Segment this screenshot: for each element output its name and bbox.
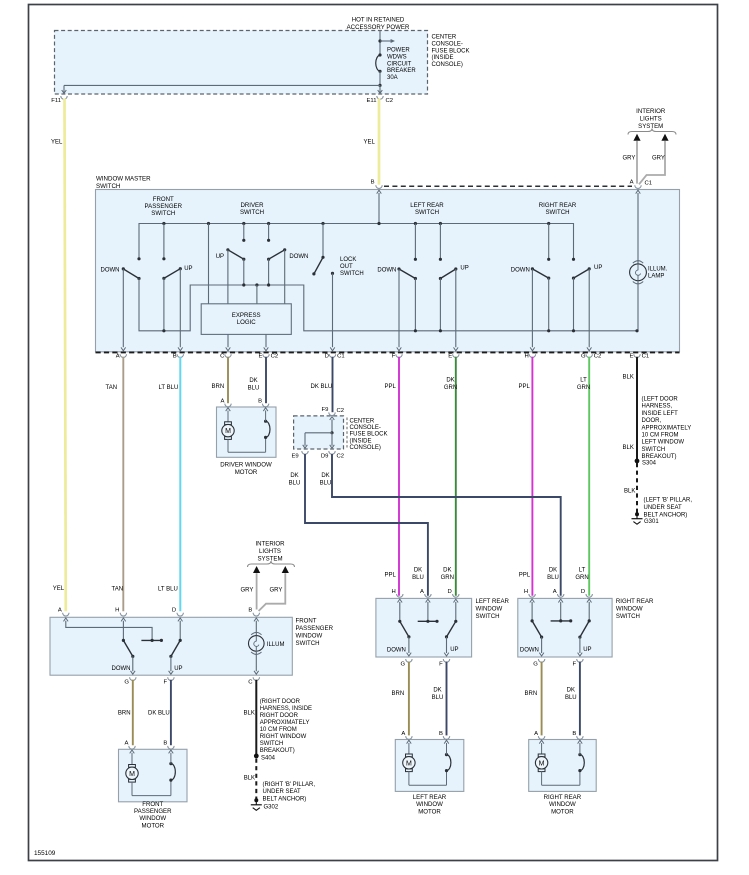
illumination lamp in master switch (637, 193, 639, 264)
svg-text:SWITCH: SWITCH (545, 209, 569, 216)
svg-text:10 CM FROM: 10 CM FROM (642, 433, 679, 439)
pin F11 exit (63, 85, 65, 93)
wire BLK splice to ground G302 (255, 759, 257, 799)
svg-text:LT BLU: LT BLU (159, 385, 179, 391)
pin B top connector (376, 185, 382, 188)
driver motor pin B (262, 404, 268, 407)
svg-text:B: B (173, 354, 177, 360)
svg-text:ILLUM: ILLUM (267, 642, 285, 648)
svg-text:GRN: GRN (575, 575, 588, 581)
svg-text:CONSOLE-: CONSOLE- (350, 425, 381, 431)
master pin G C2 (586, 354, 592, 357)
master pin F (396, 354, 402, 357)
svg-text:BRN: BRN (392, 691, 405, 697)
lockout contact from bus (321, 222, 324, 225)
svg-text:FUSE BLOCK: FUSE BLOCK (432, 48, 470, 54)
lr motor pin A (406, 736, 412, 739)
label CENTER CONSOLE- FUSE BLOCK (INSIDE CONSOLE) (346, 418, 348, 448)
wire DK BLU fp switch F to fp motor B (170, 680, 172, 745)
svg-text:DK: DK (290, 473, 298, 479)
right rear window switch box (518, 598, 612, 657)
svg-text:TAN: TAN (112, 587, 124, 593)
fp contact bar (141, 639, 161, 641)
svg-text:SWITCH: SWITCH (340, 271, 364, 277)
svg-text:D: D (325, 354, 329, 360)
rr switch pin F (577, 659, 583, 662)
svg-text:RIGHT REAR: RIGHT REAR (616, 598, 654, 605)
svg-text:DK: DK (249, 378, 257, 384)
svg-text:APPROXIMATELY: APPROXIMATELY (642, 425, 692, 431)
rr switch pin D (586, 594, 592, 597)
svg-text:A: A (58, 608, 62, 614)
return zigzag wire to rear sections (139, 279, 637, 331)
master pin B (177, 354, 183, 357)
fp switch pin B (253, 613, 259, 616)
bus junction front passenger (162, 222, 165, 225)
svg-text:ACCESSORY POWER: ACCESSORY POWER (347, 24, 410, 31)
wire DK BLU lr switch F to lr motor B (446, 662, 448, 736)
svg-text:MOTOR: MOTOR (418, 808, 441, 815)
svg-text:(INSIDE: (INSIDE (350, 438, 372, 444)
left rear window motor box (395, 740, 464, 792)
fp feed wire from pin A (66, 621, 152, 641)
svg-text:155109: 155109 (34, 850, 56, 857)
svg-text:WINDOW MASTER: WINDOW MASTER (96, 176, 151, 183)
driver down contact (267, 222, 270, 225)
svg-text:A: A (553, 589, 557, 595)
svg-text:UP: UP (450, 647, 458, 653)
svg-text:DK: DK (414, 568, 422, 574)
fp switch pin D (177, 613, 183, 616)
motor M front passenger (131, 753, 133, 765)
center console fuse block (top) box (55, 31, 428, 95)
svg-text:UP: UP (460, 266, 468, 272)
driver motor pin A (225, 404, 231, 407)
svg-text:PASSENGER: PASSENGER (296, 625, 334, 632)
svg-text:RIGHT DOOR: RIGHT DOOR (260, 713, 299, 719)
svg-text:BLK: BLK (244, 711, 255, 717)
center console fuse block (middle) box (294, 416, 344, 449)
svg-text:RIGHT REAR: RIGHT REAR (544, 794, 582, 801)
svg-text:YEL: YEL (53, 586, 65, 592)
svg-text:BLK: BLK (244, 776, 255, 782)
right rear up contact (572, 258, 575, 261)
svg-text:SWITCH: SWITCH (296, 640, 320, 647)
svg-text:G: G (533, 661, 538, 667)
svg-text:SWITCH: SWITCH (151, 210, 175, 217)
svg-text:ILLUM.: ILLUM. (648, 267, 668, 273)
feed wire inside fuse block (378, 84, 381, 87)
svg-text:G301: G301 (644, 519, 659, 525)
svg-text:UP: UP (594, 265, 602, 271)
svg-text:BLK: BLK (624, 489, 635, 495)
wire DK BLU rr switch F to rr motor B (579, 662, 581, 736)
svg-text:WINDOW: WINDOW (416, 801, 443, 808)
svg-text:DK: DK (567, 688, 575, 694)
wire PPL pin F to left rear window switch H (398, 357, 400, 596)
svg-text:INTERIOR: INTERIOR (636, 108, 666, 115)
master pin D C1 (329, 354, 335, 357)
svg-text:BREAKER: BREAKER (387, 68, 416, 74)
splice S404 (254, 754, 259, 759)
svg-text:E: E (629, 354, 633, 360)
motor M left rear (408, 743, 410, 754)
arrow to interior lights 2 (661, 134, 668, 141)
svg-text:B: B (439, 731, 443, 737)
wire BLK splice to ground G301 (636, 463, 638, 513)
svg-text:CONSOLE): CONSOLE) (350, 445, 381, 451)
svg-text:BREAKOUT): BREAKOUT) (642, 454, 677, 460)
svg-text:DK: DK (433, 688, 441, 694)
right rear down contact (547, 222, 550, 225)
wire DK BLU E9 to left rear window switch A (305, 454, 428, 596)
wire BLK fp switch C to splice S404 (255, 680, 257, 756)
svg-text:DK: DK (446, 378, 454, 384)
svg-text:LOCK: LOCK (340, 257, 356, 263)
svg-text:BLK: BLK (623, 375, 634, 381)
svg-text:LEFT WINDOW: LEFT WINDOW (642, 440, 685, 446)
svg-text:S404: S404 (261, 756, 276, 762)
motor M right rear (541, 743, 543, 754)
svg-text:D9: D9 (321, 454, 329, 460)
driver window motor box (217, 407, 277, 457)
svg-text:PPL: PPL (519, 573, 531, 579)
svg-text:(RIGHT 'B' PILLAR,: (RIGHT 'B' PILLAR, (263, 782, 316, 788)
rr motor pin A (538, 736, 544, 739)
window master switch box (96, 190, 680, 352)
svg-text:D: D (172, 608, 176, 614)
svg-text:SWITCH: SWITCH (96, 183, 120, 190)
wire PPL pin H to right rear window switch H (531, 357, 533, 596)
svg-text:B: B (258, 399, 262, 405)
svg-text:SWITCH: SWITCH (642, 447, 666, 453)
svg-text:C: C (248, 680, 253, 686)
master pin H (529, 354, 535, 357)
wire GRY 3 (256, 573, 258, 609)
svg-text:G: G (124, 680, 129, 686)
wire GRY 1 (636, 141, 638, 184)
svg-text:LEFT REAR: LEFT REAR (413, 794, 447, 801)
fp switch pin C (253, 677, 259, 680)
left rear window switch box (376, 598, 472, 657)
wire BRN fp switch G to fp motor A (132, 680, 134, 745)
svg-text:B: B (371, 179, 375, 185)
dashed connector face top C1 (384, 185, 632, 187)
svg-text:F: F (439, 661, 443, 667)
svg-text:BRN: BRN (118, 711, 131, 717)
svg-text:E: E (258, 354, 262, 360)
circuit breaker CB feed node (379, 31, 381, 56)
svg-text:UP: UP (184, 266, 192, 272)
svg-text:DOWN: DOWN (101, 268, 120, 274)
rr motor brush arc (579, 771, 581, 786)
svg-text:OUT: OUT (340, 264, 353, 270)
svg-text:LOGIC: LOGIC (237, 319, 257, 326)
express logic output pin E (265, 334, 267, 347)
master pin A (120, 354, 126, 357)
wire BLK pin E C1 to splice S304 (636, 357, 638, 461)
pin E11 C2 exit (379, 85, 381, 93)
left rear down contact (414, 222, 417, 225)
svg-text:H: H (525, 354, 529, 360)
svg-text:C2: C2 (594, 354, 602, 360)
wire YEL E11 to window master switch pin B (378, 99, 381, 185)
svg-text:SWITCH: SWITCH (415, 209, 439, 216)
svg-text:C1: C1 (642, 354, 650, 360)
svg-text:LT: LT (580, 378, 587, 384)
svg-text:DOWN: DOWN (289, 254, 308, 260)
svg-text:M: M (225, 428, 231, 435)
motor M driver (227, 411, 229, 423)
svg-text:SYSTEM: SYSTEM (257, 556, 282, 563)
svg-text:MOTOR: MOTOR (551, 808, 574, 815)
svg-text:F: F (392, 354, 396, 360)
svg-text:30A: 30A (387, 75, 398, 81)
brace interior lights (628, 129, 676, 135)
driver motor brush arc (265, 437, 267, 452)
svg-text:C2: C2 (337, 408, 345, 414)
wire DK GRN pin E to left rear window switch D (455, 357, 457, 596)
svg-text:UNDER SEAT: UNDER SEAT (263, 789, 302, 795)
svg-text:H: H (392, 589, 396, 595)
lr switch pin G (406, 659, 412, 662)
arrow to interior lights 4 (282, 566, 289, 573)
svg-text:WINDOW: WINDOW (616, 606, 643, 613)
rr motor pin B (577, 736, 583, 739)
svg-text:(RIGHT DOOR: (RIGHT DOOR (260, 699, 301, 705)
svg-text:INSIDE LEFT: INSIDE LEFT (642, 411, 679, 417)
svg-text:B: B (572, 731, 576, 737)
express logic output pin C (227, 334, 229, 347)
svg-text:UP: UP (216, 254, 224, 260)
svg-text:A: A (220, 399, 224, 405)
splice S304 (635, 459, 640, 464)
svg-text:E9: E9 (292, 454, 299, 460)
svg-text:BRN: BRN (525, 691, 538, 697)
svg-text:WINDOW: WINDOW (139, 815, 166, 822)
svg-text:C: C (220, 354, 225, 360)
svg-text:DOWN: DOWN (520, 648, 539, 654)
wire BRN rr switch G to rr motor A (541, 662, 543, 736)
svg-text:LEFT REAR: LEFT REAR (410, 202, 444, 209)
svg-text:UP: UP (174, 666, 182, 672)
svg-text:DOWN: DOWN (387, 648, 406, 654)
master pin E C1 (634, 354, 640, 357)
svg-text:LIGHTS: LIGHTS (640, 116, 662, 123)
svg-text:LIGHTS: LIGHTS (259, 548, 281, 555)
svg-text:YEL: YEL (364, 140, 376, 146)
lr switch pin H (397, 594, 403, 597)
fuse block pin F9 C2 (329, 412, 335, 415)
svg-text:BLU: BLU (248, 386, 260, 392)
svg-text:GRN: GRN (441, 575, 454, 581)
svg-text:SWITCH: SWITCH (616, 613, 640, 620)
svg-text:C1: C1 (337, 354, 345, 360)
ground G302 (254, 798, 258, 802)
wire GRY 2 (639, 141, 665, 184)
svg-text:WINDOW: WINDOW (476, 606, 503, 613)
lockout throw contact to pin D (331, 272, 334, 275)
supply bus inside master switch (139, 224, 574, 260)
wire BRN lr switch G to lr motor A (408, 662, 410, 736)
rr switch pin A (558, 594, 564, 597)
svg-text:UP: UP (583, 647, 591, 653)
svg-text:E11: E11 (366, 98, 376, 104)
master pin E C2 (263, 354, 269, 357)
svg-text:GRY: GRY (241, 588, 254, 594)
svg-text:FRONT: FRONT (296, 618, 317, 625)
svg-text:HARNESS, INSIDE: HARNESS, INSIDE (260, 706, 312, 712)
svg-text:FRONT: FRONT (153, 196, 174, 203)
fp switch pin F (168, 677, 174, 680)
svg-text:A: A (116, 354, 120, 360)
right rear window motor box (529, 740, 597, 792)
svg-text:F: F (163, 680, 167, 686)
wire DK BLU pin E to driver window motor B (265, 357, 267, 403)
svg-text:CENTER: CENTER (350, 419, 375, 425)
svg-text:GRY: GRY (270, 588, 283, 594)
lr switch pin A (425, 594, 431, 597)
svg-text:RIGHT REAR: RIGHT REAR (539, 202, 577, 209)
svg-text:A: A (534, 731, 538, 737)
fuse block internal wire (331, 419, 333, 432)
svg-text:GRY: GRY (623, 156, 636, 162)
svg-text:BREAKOUT): BREAKOUT) (260, 748, 295, 754)
fp switch pin G (130, 677, 136, 680)
svg-text:(LEFT 'B' PILLAR,: (LEFT 'B' PILLAR, (644, 498, 693, 504)
svg-text:CIRCUIT: CIRCUIT (387, 61, 412, 67)
svg-text:DK: DK (443, 568, 451, 574)
svg-text:GRN: GRN (577, 385, 590, 391)
svg-text:BLU: BLU (289, 481, 301, 487)
svg-text:EXPRESS: EXPRESS (232, 312, 261, 319)
fp switch pin H (120, 613, 126, 616)
svg-text:G: G (581, 354, 586, 360)
svg-text:DK: DK (321, 473, 329, 479)
wire DK BLU D9 to right rear window switch A (332, 454, 561, 596)
svg-text:M: M (129, 771, 135, 778)
svg-text:BLU: BLU (412, 575, 424, 581)
svg-text:PASSENGER: PASSENGER (134, 808, 172, 815)
svg-text:D: D (448, 589, 452, 595)
svg-text:B: B (163, 741, 167, 747)
wire TAN pin A to front passenger switch H (122, 357, 124, 611)
svg-text:BELT ANCHOR): BELT ANCHOR) (644, 512, 688, 518)
svg-text:GRY: GRY (652, 156, 665, 162)
lr motor brush arc (446, 771, 448, 786)
lr switch pin F (443, 659, 449, 662)
svg-text:C2: C2 (337, 454, 345, 460)
fp illumination lamp (255, 621, 257, 636)
svg-text:APPROXIMATELY: APPROXIMATELY (260, 720, 310, 726)
svg-text:DOWN: DOWN (377, 268, 396, 274)
svg-text:TAN: TAN (106, 385, 118, 391)
svg-text:FUSE BLOCK: FUSE BLOCK (350, 432, 388, 438)
wire LT GRN pin G to right rear window switch D (588, 357, 590, 596)
svg-text:RIGHT WINDOW: RIGHT WINDOW (260, 734, 307, 740)
rr switch pin H (529, 594, 535, 597)
svg-text:DOWN: DOWN (511, 268, 530, 274)
svg-text:F: F (572, 661, 576, 667)
rr switch pin G (538, 659, 544, 662)
dashed connector face bottom (96, 351, 680, 353)
lr switch pin D (453, 594, 459, 597)
svg-text:GRN: GRN (444, 385, 457, 391)
wire DK BLU pin D to center console fuse block F9 (332, 357, 334, 412)
svg-text:SWITCH: SWITCH (240, 209, 264, 216)
svg-text:LEFT REAR: LEFT REAR (476, 598, 510, 605)
svg-text:DK BLU: DK BLU (148, 711, 170, 717)
bus junction driver feed to express logic (207, 222, 210, 225)
svg-text:YEL: YEL (51, 140, 63, 146)
svg-text:S304: S304 (642, 461, 657, 467)
svg-text:10 CM FROM: 10 CM FROM (260, 727, 297, 733)
svg-text:BLK: BLK (623, 445, 634, 451)
svg-text:HARNESS,: HARNESS, (642, 404, 673, 410)
svg-text:INTERIOR: INTERIOR (255, 541, 285, 548)
svg-text:PPL: PPL (385, 384, 397, 390)
master pin E (453, 354, 459, 357)
arrow to interior lights 1 (633, 134, 640, 141)
svg-text:DOOR,: DOOR, (642, 418, 662, 424)
fuse block pin D9 C2 (330, 445, 335, 448)
svg-text:DK BLU: DK BLU (311, 384, 333, 390)
svg-text:(INSIDE: (INSIDE (432, 55, 454, 61)
svg-text:CONSOLE-: CONSOLE- (432, 41, 463, 47)
svg-text:D: D (581, 589, 585, 595)
master pin C (225, 354, 231, 357)
svg-text:M: M (406, 760, 412, 767)
svg-text:BLU: BLU (432, 695, 444, 701)
front passenger window switch box (50, 617, 292, 675)
wire BRN pin C to driver window motor A (227, 357, 229, 403)
left rear up contact (439, 222, 442, 225)
wire GRY 4 (259, 573, 286, 611)
svg-text:WINDOW: WINDOW (549, 801, 576, 808)
svg-text:SWITCH: SWITCH (260, 741, 284, 747)
svg-text:HOT IN RETAINED: HOT IN RETAINED (352, 17, 405, 24)
svg-text:BRN: BRN (212, 384, 225, 390)
svg-text:C1: C1 (645, 180, 653, 186)
svg-text:MOTOR: MOTOR (142, 822, 165, 829)
fp motor pin B (168, 746, 174, 749)
svg-text:BLU: BLU (320, 481, 332, 487)
svg-text:BLU: BLU (565, 695, 577, 701)
svg-text:PPL: PPL (519, 384, 531, 390)
front passenger window motor box (119, 749, 188, 802)
fp motor brush arc (170, 780, 172, 796)
svg-text:PPL: PPL (385, 573, 397, 579)
svg-text:G: G (401, 661, 406, 667)
fp switch pin A (63, 613, 69, 616)
auto-reset arrow (380, 40, 391, 42)
svg-text:FRONT: FRONT (142, 801, 163, 808)
svg-text:G302: G302 (264, 805, 279, 811)
svg-text:WDWS: WDWS (387, 54, 407, 60)
wire LT BLU pin B to front passenger switch D (179, 357, 181, 611)
svg-text:POWER: POWER (387, 48, 410, 54)
svg-text:C2: C2 (271, 354, 279, 360)
svg-text:A: A (630, 179, 634, 185)
EXPRESS LOGIC box U1 (201, 304, 291, 335)
svg-text:LT BLU: LT BLU (158, 587, 178, 593)
svg-text:WINDOW: WINDOW (296, 633, 323, 640)
svg-text:DRIVER: DRIVER (240, 202, 264, 209)
svg-text:DRIVER WINDOW: DRIVER WINDOW (220, 462, 272, 469)
lr motor pin B (443, 736, 449, 739)
svg-text:UNDER SEAT: UNDER SEAT (644, 505, 683, 511)
express logic feed junction (255, 283, 258, 286)
